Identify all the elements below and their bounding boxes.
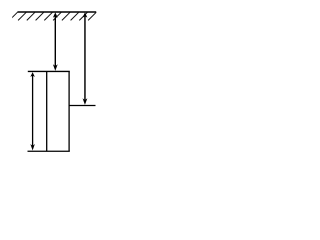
ceiling hatch strokes	[9, 12, 96, 20]
arrow A top arrowhead	[53, 12, 58, 17]
dimension arrow shaft	[32, 75, 34, 147]
ceiling line	[17, 11, 96, 13]
arrow B shaft (ceiling to ledge)	[84, 14, 86, 102]
block left wall	[46, 71, 48, 151]
block bottom line with left extension	[28, 150, 70, 152]
dimension arrow top arrowhead	[30, 72, 34, 77]
block top line with left extension	[28, 70, 70, 72]
arrow A shaft (ceiling to block top)	[54, 14, 56, 68]
block right wall	[68, 71, 70, 151]
arrow B top arrowhead	[83, 12, 88, 17]
arrow A bottom arrowhead	[53, 64, 58, 71]
dimension arrow bottom arrowhead	[30, 144, 34, 150]
ledge line	[69, 105, 95, 107]
arrow B bottom arrowhead	[83, 98, 88, 105]
